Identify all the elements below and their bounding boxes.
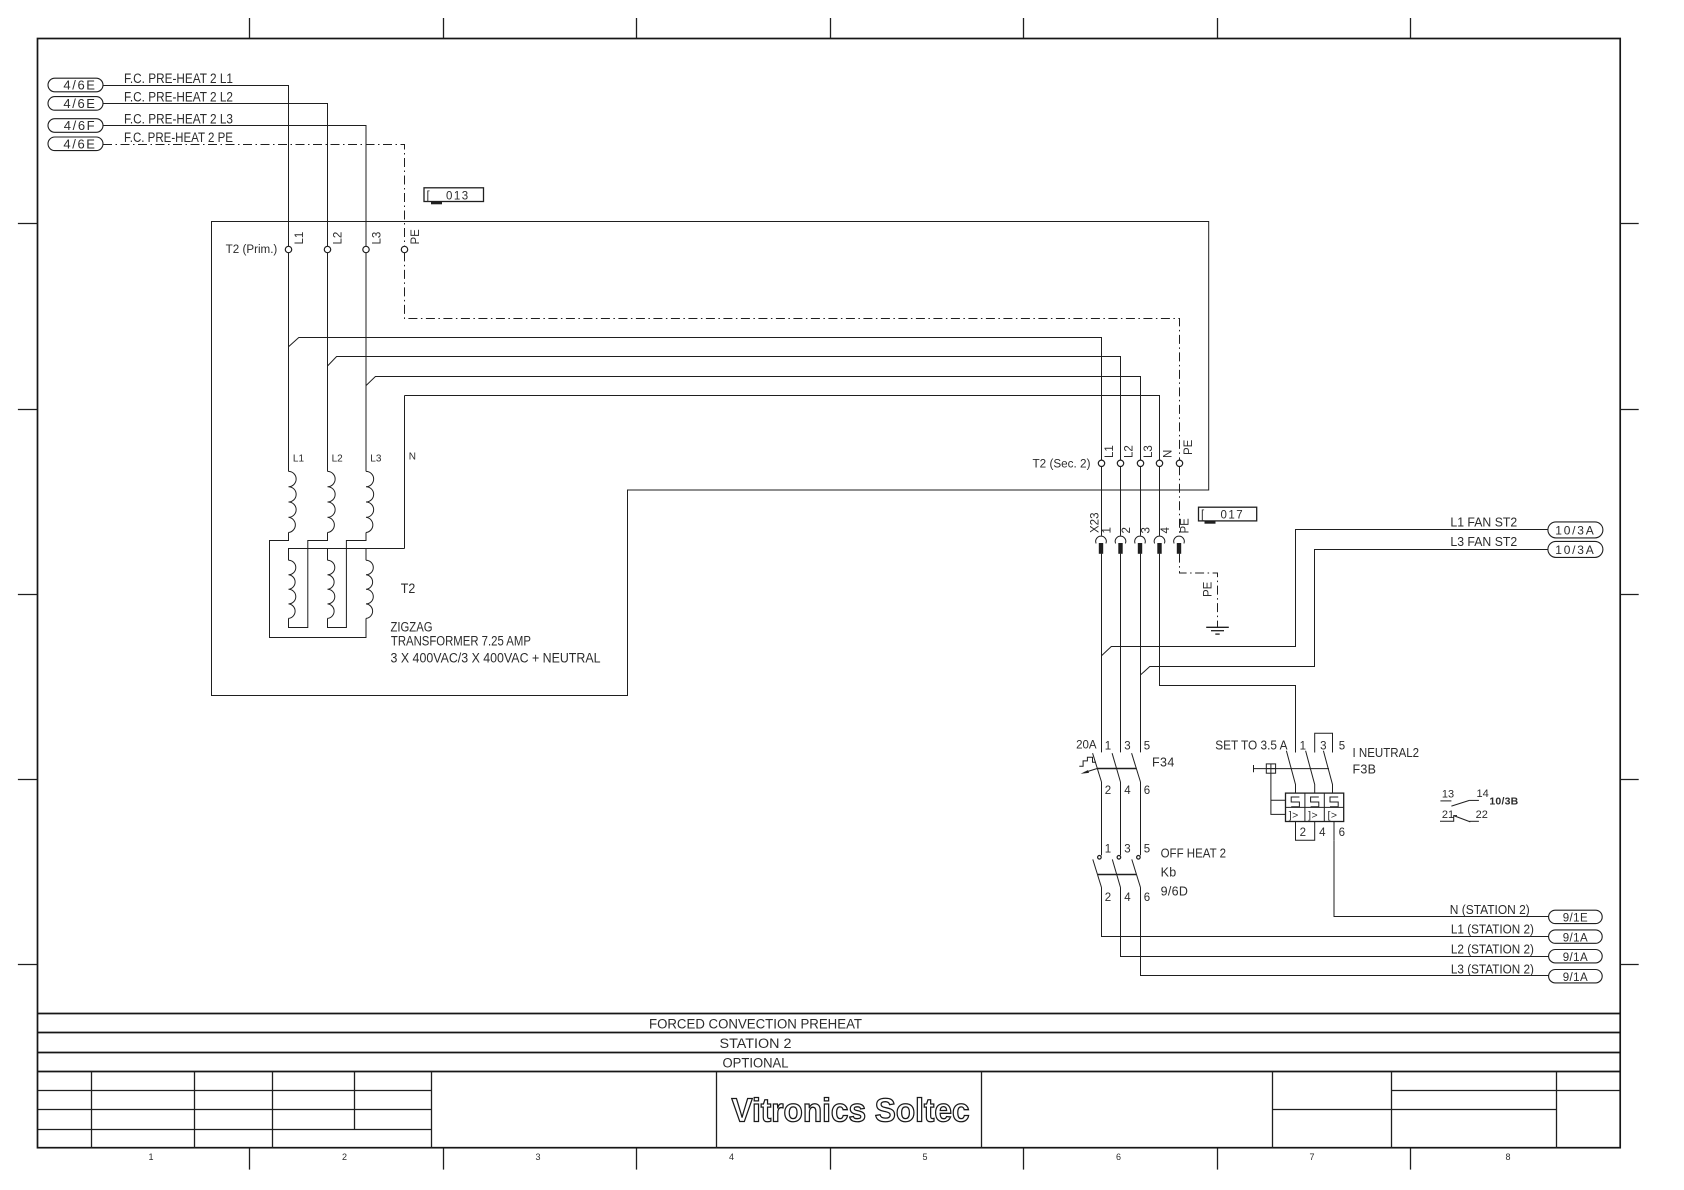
coil T2 upper L1 — [289, 471, 297, 532]
Kb blade pole 1 — [1093, 859, 1102, 887]
Kb contact circle pole 1 — [1098, 856, 1102, 860]
wire X23-2 down to F34 pole 2 — [1120, 554, 1122, 753]
svg-text:L1 (STATION 2): L1 (STATION 2) — [1451, 923, 1534, 937]
svg-text:L2: L2 — [332, 454, 344, 465]
svg-text:20A: 20A — [1076, 740, 1097, 752]
terminal circle prim PE — [401, 246, 407, 252]
connector 9/1A (L2) — [1549, 950, 1603, 964]
zigzag link upper L3 to lower L2 — [328, 533, 367, 628]
wire L1 from connector — [103, 86, 289, 247]
svg-text:7: 7 — [1309, 1152, 1314, 1162]
svg-text:3: 3 — [1124, 740, 1130, 752]
svg-text:1: 1 — [1102, 527, 1114, 533]
svg-text:L1: L1 — [1104, 445, 1116, 458]
wire X23-1 down to F34 pole 1 — [1101, 554, 1103, 753]
F3B thermal element pole 1 — [1291, 797, 1299, 807]
svg-text:N (STATION 2): N (STATION 2) — [1450, 903, 1530, 917]
contactor Kb (OFF HEAT 2) — [1093, 844, 1226, 904]
svg-text:5: 5 — [1339, 740, 1345, 752]
svg-text:]>: ]> — [1289, 809, 1299, 821]
svg-text:4/6F: 4/6F — [64, 118, 96, 133]
F3B blade pole 1 — [1286, 751, 1295, 793]
wire F3B pole 6 to N (STATION 2) — [1334, 840, 1549, 916]
svg-text:I NEUTRAL2: I NEUTRAL2 — [1353, 746, 1420, 760]
wire Kb 2 to L1 (STATION 2) — [1102, 888, 1549, 937]
connector 9/1A (L3) — [1549, 970, 1603, 984]
wire N to secondary — [405, 396, 1160, 461]
connector 9/1A (L1) — [1549, 930, 1603, 944]
svg-text:]>: ]> — [1308, 809, 1318, 821]
connector 4/6E (F.C. PRE-HEAT 2 L2) — [48, 96, 103, 111]
zigzag link upper L2 to lower L1 — [289, 533, 328, 628]
svg-text:9/1A: 9/1A — [1563, 932, 1588, 944]
wire X23-4 (N) to F3B — [1160, 554, 1296, 753]
svg-text:4/6E: 4/6E — [63, 136, 96, 151]
wire prim L2 down to winding — [327, 252, 329, 471]
wires F34 to Kb — [1102, 782, 1141, 855]
X23 terminal 1 — [1096, 527, 1114, 554]
svg-text:3: 3 — [1124, 844, 1130, 856]
svg-text:PE: PE — [1203, 581, 1215, 597]
motor breaker F3B (I NEUTRAL2) — [1215, 733, 1419, 840]
svg-text:L3 FAN ST2: L3 FAN ST2 — [1450, 535, 1517, 549]
svg-text:2: 2 — [1105, 892, 1111, 904]
coil T2 lower L3 — [366, 560, 373, 618]
svg-text:4: 4 — [1124, 892, 1131, 904]
svg-text:5: 5 — [1144, 844, 1150, 856]
svg-text:6: 6 — [1144, 892, 1150, 904]
svg-text:10/3B: 10/3B — [1489, 796, 1518, 808]
svg-text:013: 013 — [446, 190, 470, 202]
svg-text:OFF HEAT 2: OFF HEAT 2 — [1161, 847, 1226, 861]
wire Kb 6 to L3 (STATION 2) — [1141, 888, 1549, 976]
aux contact 13-14 (10/3B) — [1440, 788, 1488, 806]
X23 terminal 2 — [1115, 527, 1133, 554]
svg-text:PE: PE — [410, 229, 422, 245]
circuit breaker F34 — [1076, 740, 1175, 797]
svg-text:X23: X23 — [1090, 513, 1102, 533]
F3B overload box — [1286, 793, 1344, 821]
svg-text:6: 6 — [1116, 1152, 1121, 1162]
svg-text:21: 21 — [1442, 809, 1454, 821]
wire branch L3 FAN ST2 — [1141, 550, 1548, 675]
svg-text:2: 2 — [1300, 827, 1306, 839]
svg-text:3: 3 — [1320, 740, 1326, 752]
wire L2 from connector — [103, 104, 328, 247]
svg-text:L3: L3 — [371, 232, 383, 245]
svg-text:L1 FAN ST2: L1 FAN ST2 — [1450, 516, 1517, 530]
svg-text:1: 1 — [1300, 740, 1306, 752]
wire PE from connector (dash-dot) — [103, 145, 405, 247]
F34 release arrow — [1084, 769, 1097, 773]
wire PE to ground (dash-dot) — [1180, 554, 1218, 627]
svg-text:4/6E: 4/6E — [63, 96, 96, 111]
terminal circle prim L1 — [285, 246, 291, 252]
wire Kb 4 to L2 (STATION 2) — [1121, 888, 1549, 957]
connector 10/3A (L1 FAN) — [1548, 522, 1603, 538]
svg-text:T2 (Sec. 2): T2 (Sec. 2) — [1033, 459, 1091, 471]
svg-text:L1: L1 — [294, 232, 306, 245]
connector 4/6E (F.C. PRE-HEAT 2 PE) — [48, 136, 103, 151]
terminal circle prim L2 — [324, 246, 330, 252]
svg-text:L3: L3 — [1143, 445, 1155, 458]
svg-text:5: 5 — [922, 1152, 927, 1162]
svg-text:4: 4 — [729, 1152, 734, 1162]
F3B blade pole 2 — [1306, 751, 1315, 793]
terminal circle sec N — [1156, 460, 1162, 466]
terminal circle sec PE — [1176, 460, 1182, 466]
coil T2 upper L3 — [366, 471, 374, 532]
svg-text:L1: L1 — [293, 454, 305, 465]
F3B top bridge pins 3-5 — [1315, 733, 1333, 752]
svg-text:L3 (STATION 2): L3 (STATION 2) — [1451, 962, 1534, 976]
Kb contact circle pole 2 — [1117, 856, 1121, 860]
X23 terminal 4 — [1154, 527, 1172, 554]
svg-text:1: 1 — [148, 1152, 153, 1162]
svg-text:T2 (Prim.): T2 (Prim.) — [226, 244, 278, 256]
connector 4/6F (F.C. PRE-HEAT 2 L3) — [48, 118, 103, 133]
svg-text:5: 5 — [1144, 740, 1150, 752]
svg-text:9/1A: 9/1A — [1563, 952, 1588, 964]
wire X23-3 down to F34 pole 3 — [1140, 554, 1142, 753]
svg-text:6: 6 — [1144, 785, 1150, 797]
svg-text:F.C. PRE-HEAT 2 L3: F.C. PRE-HEAT 2 L3 — [124, 111, 233, 126]
terminal circle sec L3 — [1137, 460, 1143, 466]
svg-text:14: 14 — [1477, 788, 1489, 800]
Kb linkage bar — [1098, 874, 1137, 876]
svg-text:9/6D: 9/6D — [1161, 885, 1189, 899]
svg-text:2: 2 — [342, 1152, 347, 1162]
wire N bus to lower winding tops — [289, 549, 405, 561]
F3B bottom bridge pins 2-4 — [1296, 822, 1315, 841]
svg-text:L3: L3 — [370, 454, 382, 465]
svg-text:L2: L2 — [1124, 445, 1136, 458]
F34 blade pole 2 — [1112, 753, 1120, 782]
wire L3 from connector — [103, 126, 366, 247]
svg-text:8: 8 — [1505, 1152, 1510, 1162]
svg-text:2: 2 — [1121, 527, 1133, 533]
X23 terminal PE — [1174, 518, 1192, 554]
svg-text:N: N — [1163, 450, 1175, 458]
svg-text:F.C. PRE-HEAT 2 PE: F.C. PRE-HEAT 2 PE — [124, 130, 233, 145]
F3B thermal element pole 3 — [1330, 797, 1338, 807]
wire branch L3 to secondary — [366, 377, 1141, 461]
F34 thermal release symbol — [1079, 757, 1096, 766]
cable label box C_013 — [424, 188, 484, 203]
wire branch L1 FAN ST2 — [1102, 530, 1548, 656]
svg-text:1: 1 — [1105, 844, 1111, 856]
svg-text:Kb: Kb — [1161, 866, 1177, 880]
wire prim L1 down to winding — [288, 252, 290, 471]
svg-text:017: 017 — [1221, 510, 1245, 522]
svg-text:F.C. PRE-HEAT 2 L2: F.C. PRE-HEAT 2 L2 — [124, 89, 233, 104]
svg-text:F3B: F3B — [1353, 763, 1377, 777]
svg-text:2: 2 — [1105, 785, 1111, 797]
svg-text:4: 4 — [1160, 527, 1172, 534]
svg-text:13: 13 — [1442, 789, 1454, 801]
svg-text:F34: F34 — [1152, 755, 1175, 769]
coil T2 lower L2 — [328, 560, 335, 618]
svg-text:9/1A: 9/1A — [1563, 972, 1588, 984]
coil T2 lower L1 — [289, 560, 296, 618]
X23 terminal 3 — [1135, 527, 1153, 554]
coil T2 upper L2 — [328, 471, 336, 532]
svg-text:9/1E: 9/1E — [1563, 913, 1588, 925]
terminal circle prim L3 — [363, 246, 369, 252]
svg-text:F.C. PRE-HEAT 2 L1: F.C. PRE-HEAT 2 L1 — [124, 71, 233, 86]
svg-text:4: 4 — [1319, 827, 1326, 839]
Kb blade pole 3 — [1132, 859, 1141, 887]
svg-text:4: 4 — [1124, 785, 1131, 797]
svg-text:[>: [> — [1328, 809, 1338, 821]
svg-text:3: 3 — [535, 1152, 540, 1162]
svg-text:1: 1 — [1105, 740, 1111, 752]
svg-text:22: 22 — [1476, 809, 1488, 821]
F34 linkage bar — [1097, 768, 1137, 770]
svg-text:3 X 400VAC/3 X 400VAC + NEUTRA: 3 X 400VAC/3 X 400VAC + NEUTRAL — [391, 650, 601, 665]
zigzag link upper L1 to bottom bus — [270, 533, 367, 638]
svg-text:10/3A: 10/3A — [1555, 524, 1595, 538]
wires sec circles down to X23 — [1102, 466, 1160, 536]
F34 blade pole 3 — [1132, 753, 1141, 782]
svg-text:4/6E: 4/6E — [63, 78, 96, 93]
svg-text:Vitronics Soltec: Vitronics Soltec — [732, 1092, 970, 1129]
svg-text:TRANSFORMER 7.25 AMP: TRANSFORMER 7.25 AMP — [391, 633, 531, 648]
svg-text:FORCED CONVECTION PREHEAT: FORCED CONVECTION PREHEAT — [649, 1017, 862, 1032]
wire PE to secondary (dash-dot) — [405, 252, 1180, 460]
terminal circle sec L1 — [1098, 460, 1104, 466]
wire branch L2 to secondary — [328, 357, 1121, 461]
svg-text:SET TO 3.5 A: SET TO 3.5 A — [1215, 738, 1288, 752]
svg-text:L2 (STATION 2): L2 (STATION 2) — [1451, 942, 1534, 956]
svg-text:10/3A: 10/3A — [1555, 543, 1595, 557]
svg-text:6: 6 — [1339, 827, 1345, 839]
connector 4/6E (F.C. PRE-HEAT 2 L1) — [48, 78, 103, 93]
aux contact 21-22 (10/3B) — [1440, 809, 1488, 822]
F3B trip linkage to overload box — [1271, 773, 1286, 814]
svg-text:PE: PE — [1180, 518, 1192, 534]
F3B blade pole 3 — [1323, 751, 1332, 793]
connector 9/1E — [1549, 910, 1603, 924]
F3B test button square — [1266, 764, 1275, 773]
svg-text:PE: PE — [1183, 439, 1195, 455]
Kb blade pole 2 — [1112, 859, 1120, 887]
svg-text:T2: T2 — [401, 581, 416, 596]
wire prim L3 down to winding — [365, 252, 367, 471]
terminal circle sec L2 — [1117, 460, 1123, 466]
svg-text:STATION 2: STATION 2 — [720, 1036, 792, 1051]
svg-text:L2: L2 — [333, 232, 345, 245]
wire N vertical — [404, 396, 406, 549]
Kb contact circle pole 3 — [1137, 856, 1141, 860]
transformer T2 enclosure box — [212, 222, 1209, 696]
connector 10/3A (L3 FAN) — [1548, 541, 1603, 557]
TITLE TEXTS — [649, 1017, 970, 1129]
F34 blade pole 1 — [1093, 753, 1102, 782]
svg-text:N: N — [409, 452, 416, 463]
ground symbol — [1206, 627, 1229, 634]
svg-text:OPTIONAL: OPTIONAL — [723, 1055, 789, 1070]
wire branch L1 to secondary — [289, 338, 1102, 461]
cable label box C_017 — [1199, 507, 1257, 522]
svg-text:3: 3 — [1141, 527, 1153, 533]
F3B thermal element pole 2 — [1311, 797, 1319, 807]
F3B trip bar — [1254, 768, 1330, 770]
